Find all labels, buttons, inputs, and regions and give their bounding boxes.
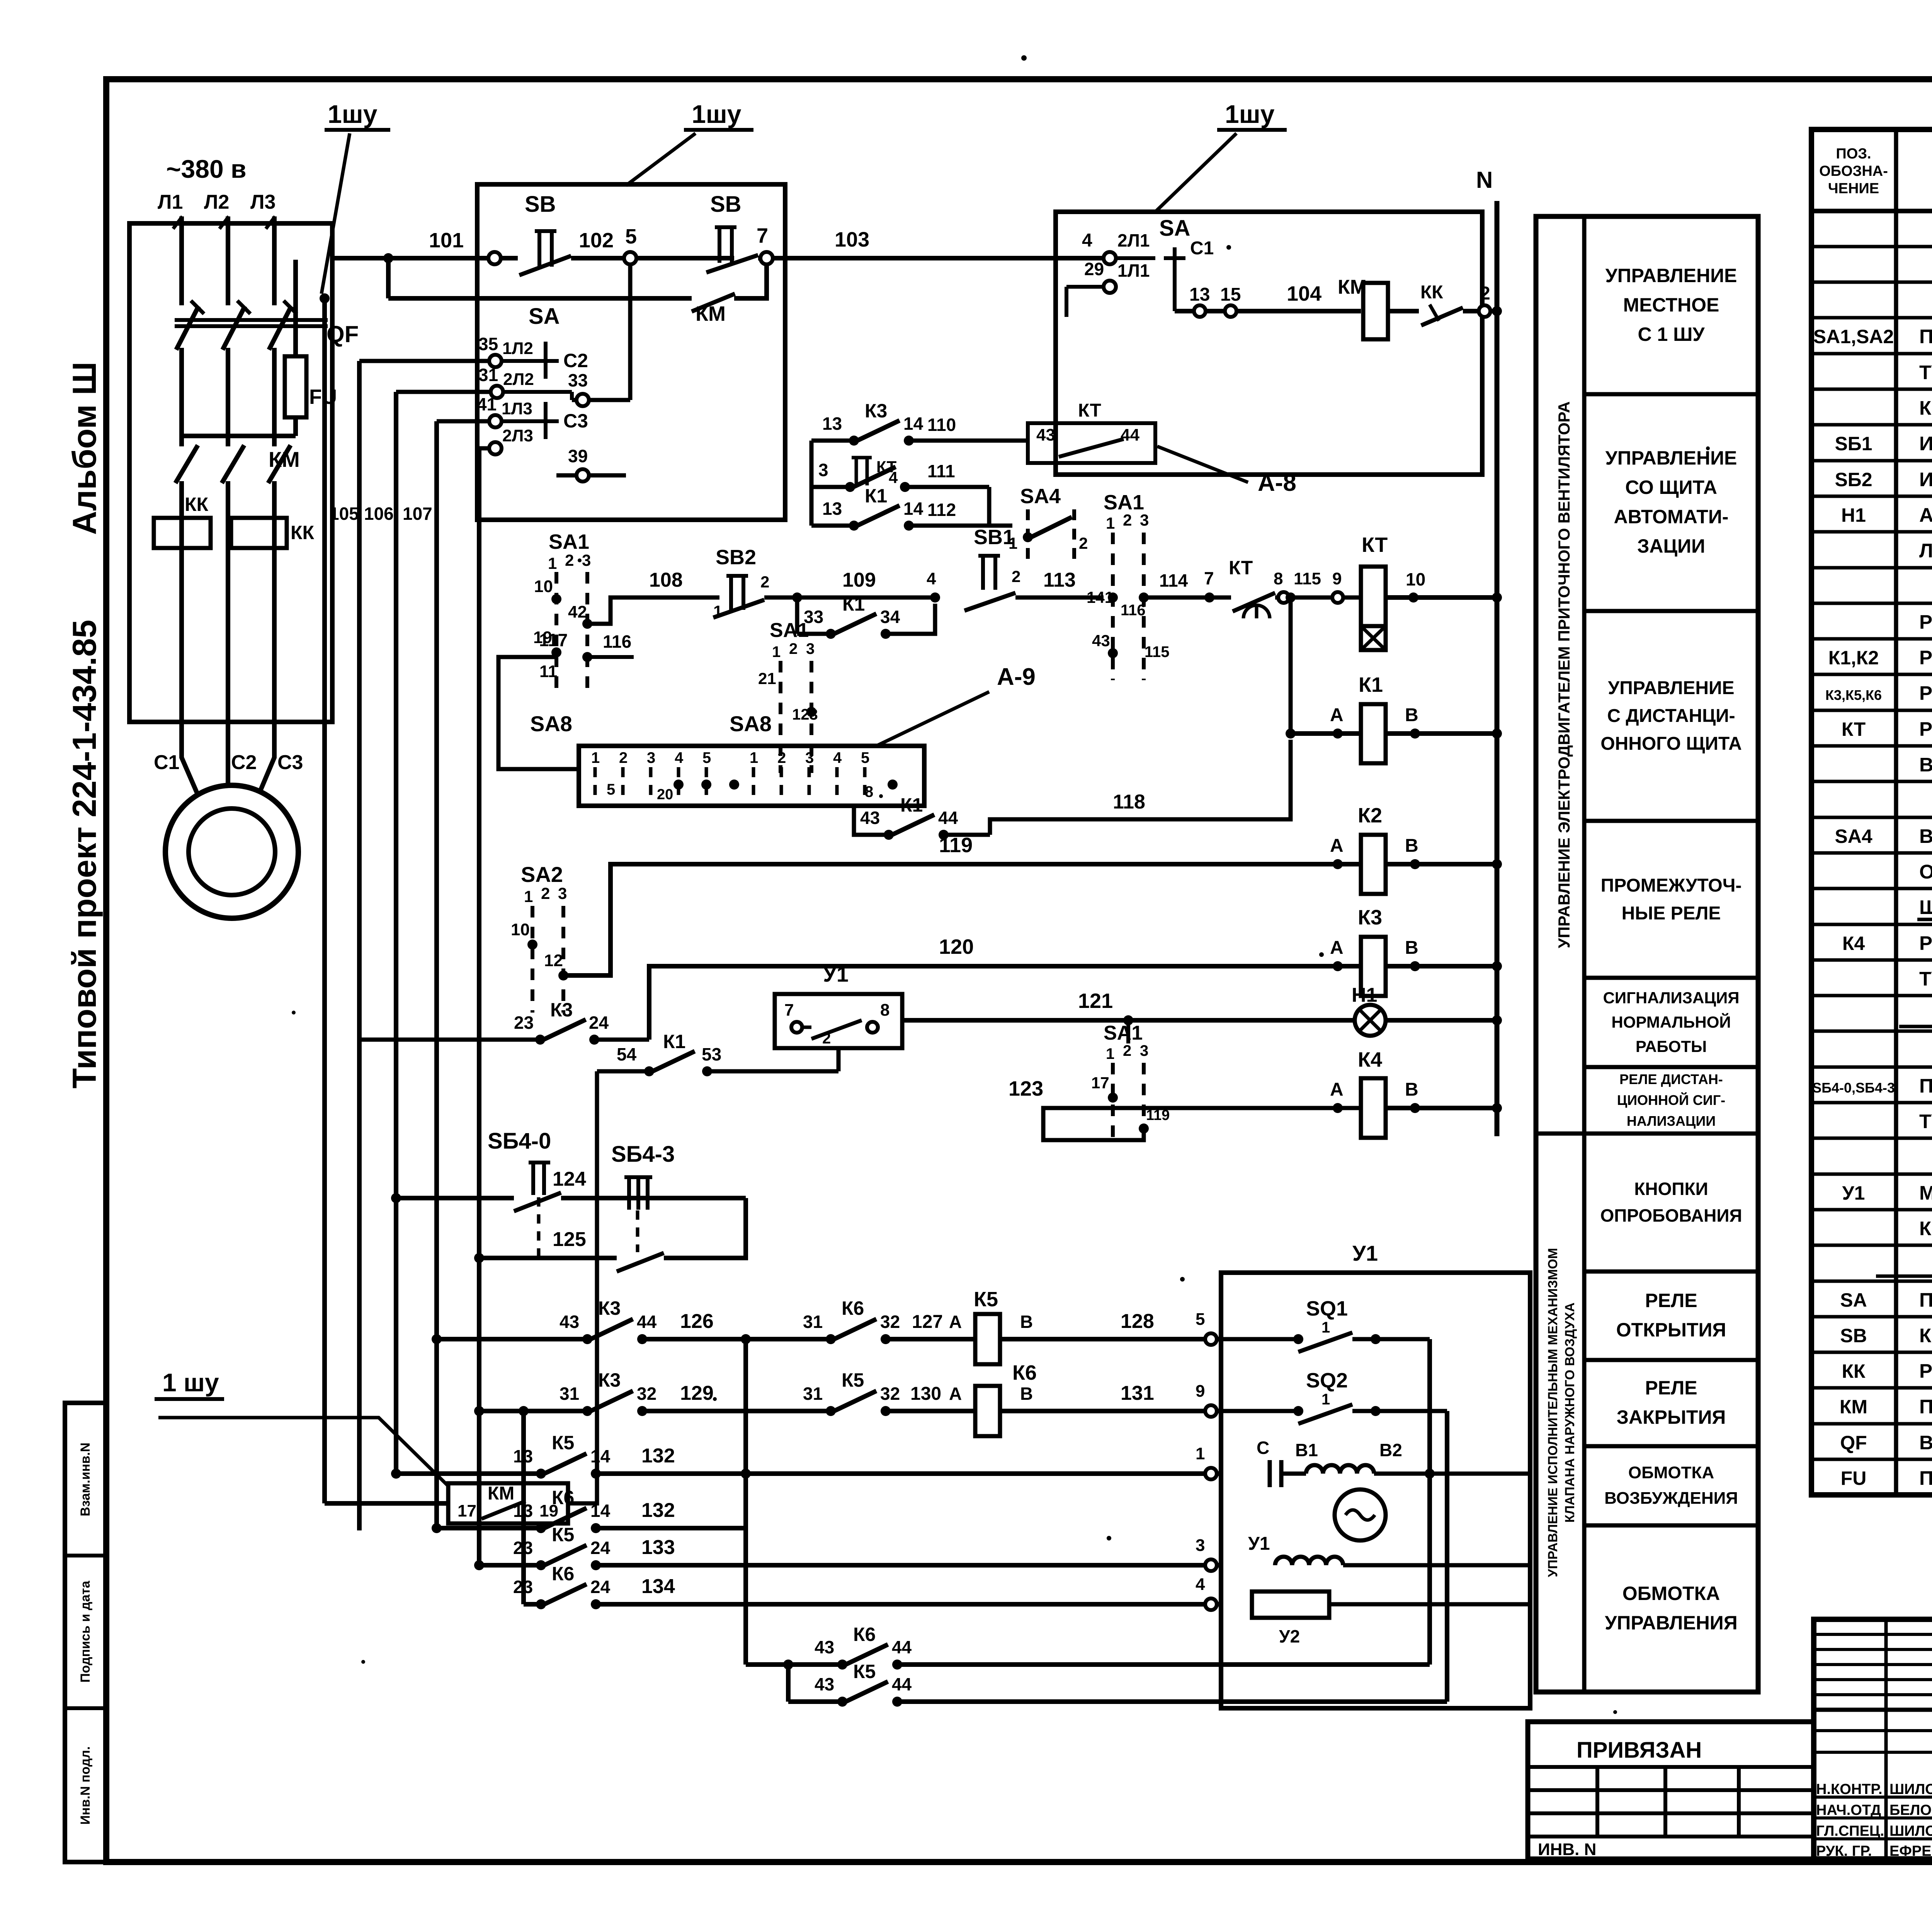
svg-text:К5: К5 xyxy=(974,1288,998,1311)
svg-text:108: 108 xyxy=(649,569,683,591)
svg-text:112: 112 xyxy=(927,500,956,520)
svg-text:2: 2 xyxy=(619,749,628,766)
svg-text:SA1: SA1 xyxy=(549,530,589,553)
interlock row 43 K5 44 xyxy=(783,1411,1447,1707)
part row QF xyxy=(1840,1431,1932,1454)
svg-text:ЩИТ ДИСТАНЦИОННОГО УПРАВЛЕНИЯ: ЩИТ ДИСТАНЦИОННОГО УПРАВЛЕНИЯ (ЦДУ) xyxy=(1919,896,1932,918)
svg-text:116: 116 xyxy=(1121,602,1146,619)
svg-text:3: 3 xyxy=(647,749,655,766)
svg-text:АРМАТУРА СИГНАЛЬНОЙ ЛАМПЫ ЛС-2: АРМАТУРА СИГНАЛЬНОЙ ЛАМПЫ ЛС-220 xyxy=(1919,504,1932,526)
svg-text:У2: У2 xyxy=(1279,1626,1300,1646)
svg-text:К1,К2: К1,К2 xyxy=(1828,647,1879,669)
svg-text:7: 7 xyxy=(784,1001,794,1020)
actuator box U1 xyxy=(1221,1241,1530,1708)
svg-text:106: 106 xyxy=(364,504,394,524)
svg-text:5: 5 xyxy=(607,781,615,798)
svg-text:~380 в: ~380 в xyxy=(166,155,247,183)
svg-text:К6: К6 xyxy=(552,1563,574,1585)
svg-text:КК: КК xyxy=(291,522,315,543)
svg-text:ЕФРЕМОВА: ЕФРЕМОВА xyxy=(1889,1843,1932,1859)
svg-text:123: 123 xyxy=(1009,1077,1043,1100)
svg-text:С2: С2 xyxy=(231,751,257,774)
contact row 23 K3 24 xyxy=(359,999,649,1045)
title block main xyxy=(1814,1619,1932,1859)
svg-text:КК: КК xyxy=(185,494,209,515)
motor M xyxy=(165,785,298,918)
part row ТУ 16-523.331-78 xyxy=(1919,968,1932,990)
svg-text:ЗАЦИИ: ЗАЦИИ xyxy=(1637,535,1705,557)
svg-text:РЕЛЕ: РЕЛЕ xyxy=(1645,1290,1697,1311)
svg-text:К3: К3 xyxy=(1358,906,1382,929)
svg-text:КНОПКИ: КНОПКИ xyxy=(1634,1179,1708,1199)
wire 108 xyxy=(587,569,719,624)
svg-text:3: 3 xyxy=(1140,1042,1148,1059)
control cabinet box with SB buttons xyxy=(477,184,785,520)
zone cell: local control xyxy=(1605,265,1737,345)
svg-text:2: 2 xyxy=(822,1030,831,1047)
thermal relay KK heaters xyxy=(154,494,315,548)
svg-text:129: 129 xyxy=(680,1382,714,1404)
svg-text:СИГНАЛИЗАЦИЯ: СИГНАЛИЗАЦИЯ xyxy=(1603,989,1740,1007)
svg-text:Типовой проект 224-1-434.85: Типовой проект 224-1-434.85 xyxy=(66,620,103,1088)
part row SБ2 xyxy=(1835,468,1932,491)
svg-text:10: 10 xyxy=(1406,569,1425,589)
svg-text:SA2: SA2 xyxy=(521,862,563,887)
svg-text:А: А xyxy=(1330,1079,1344,1100)
svg-text:44: 44 xyxy=(938,808,958,828)
svg-text:РУК. ГР.: РУК. ГР. xyxy=(1816,1843,1872,1859)
svg-text:102: 102 xyxy=(579,229,614,252)
svg-text:43: 43 xyxy=(1092,631,1110,650)
label 1 shu (SB box) xyxy=(626,100,753,186)
interlock row 43 K6 44 xyxy=(746,1339,1430,1670)
svg-text:1: 1 xyxy=(750,749,758,766)
svg-text:РЕЛЕ ВРЕМЕНИ ПРОГРАММНОЕ ~220в: РЕЛЕ ВРЕМЕНИ ПРОГРАММНОЕ ~220в, 50гц xyxy=(1919,718,1932,740)
svg-text:17: 17 xyxy=(1091,1074,1109,1092)
part row ШКАФ УПРАВЛЕНИЯ (1 ШУ) xyxy=(1876,1253,1932,1276)
svg-text:С ДИСТАНЦИ-: С ДИСТАНЦИ- xyxy=(1607,706,1735,726)
svg-text:2Л1: 2Л1 xyxy=(1117,230,1150,250)
svg-text:43: 43 xyxy=(815,1637,834,1657)
svg-text:КТ: КТ xyxy=(1229,557,1253,579)
vertical buses 105 106 107 xyxy=(320,293,479,1565)
contact row 43 K1 44 under SA8 xyxy=(854,794,990,840)
svg-text:К5: К5 xyxy=(552,1524,574,1546)
contact row 13 K6 14 wire 132b xyxy=(432,1469,751,1533)
svg-text:130: 130 xyxy=(910,1384,941,1404)
svg-text:4: 4 xyxy=(833,749,842,766)
svg-text:1: 1 xyxy=(591,749,600,766)
seal-in contact K1 row 33-34 xyxy=(792,592,935,639)
svg-text:РЕЛЕ РПУ-2-062203~220в 50 гц: РЕЛЕ РПУ-2-062203~220в 50 гц 2з+2р xyxy=(1919,932,1932,954)
sync generator symbol xyxy=(1335,1489,1386,1540)
svg-text:7: 7 xyxy=(757,224,768,247)
svg-text:КМ: КМ xyxy=(488,1483,514,1504)
svg-text:QF: QF xyxy=(327,321,359,347)
svg-text:132: 132 xyxy=(641,1499,675,1522)
svg-text:131: 131 xyxy=(1121,1382,1154,1404)
svg-text:Н1: Н1 xyxy=(1352,984,1377,1006)
selector SA2 column xyxy=(511,862,568,1013)
svg-text:К3,К5,К6: К3,К5,К6 xyxy=(1825,687,1882,703)
svg-text:ТУ 16526. 128-75: ТУ 16526. 128-75 xyxy=(1919,361,1932,383)
svg-text:У1: У1 xyxy=(823,962,849,986)
part row SA1,SA2 xyxy=(1813,325,1932,347)
parts table header xyxy=(1819,146,1932,197)
svg-text:Н1: Н1 xyxy=(1841,504,1866,526)
part row КТ xyxy=(1842,718,1932,740)
svg-text:8: 8 xyxy=(880,1001,889,1020)
selector SA1 column d xyxy=(1091,1020,1170,1140)
part row ТУ 16526. 128-75 xyxy=(1919,361,1932,384)
svg-text:А-8: А-8 xyxy=(1258,470,1296,496)
svg-text:29: 29 xyxy=(1084,259,1104,279)
svg-text:ЗАКРЫТИЯ: ЗАКРЫТИЯ xyxy=(1617,1406,1726,1428)
part row ЛИНЗА ЗЕЛЕНАЯ ТУ16.535.4 xyxy=(1919,540,1932,562)
svg-text:3: 3 xyxy=(582,551,591,569)
svg-text:SA8: SA8 xyxy=(730,711,772,736)
svg-text:БЕЛОВ: БЕЛОВ xyxy=(1889,1802,1932,1818)
svg-text:4: 4 xyxy=(889,468,898,487)
svg-text:105: 105 xyxy=(329,504,359,524)
svg-text:SQ1: SQ1 xyxy=(1306,1297,1348,1320)
svg-text:1Л2: 1Л2 xyxy=(502,339,533,358)
contact row 31 K3 32 wire 129 xyxy=(474,1369,831,1416)
wire to KT rung xyxy=(1144,568,1231,603)
svg-text:SБ2: SБ2 xyxy=(1835,469,1872,490)
svg-text:Альбом Ш: Альбом Ш xyxy=(66,362,103,535)
svg-text:14: 14 xyxy=(903,499,923,519)
push button SB2 xyxy=(713,546,769,620)
svg-text:SB2: SB2 xyxy=(716,546,756,569)
svg-text:КОНТАКТНЫЙ МЭО-4/100 ГОСТ 71: КОНТАКТНЫЙ МЭО-4/100 ГОСТ 7192-74 xyxy=(1919,1217,1932,1239)
svg-text:4: 4 xyxy=(1196,1575,1205,1594)
title block left signature grid xyxy=(1814,1619,1932,1859)
svg-text:SA1: SA1 xyxy=(1104,491,1144,514)
control winding U1 xyxy=(1248,1534,1530,1565)
svg-text:К4: К4 xyxy=(1358,1048,1382,1071)
svg-text:2: 2 xyxy=(541,884,550,902)
svg-text:12: 12 xyxy=(544,951,563,970)
svg-text:КТ: КТ xyxy=(1078,400,1101,421)
zone cell: normal operation signal xyxy=(1603,989,1740,1055)
svg-text:53: 53 xyxy=(702,1044,721,1064)
svg-text:14: 14 xyxy=(903,414,923,434)
svg-text:2: 2 xyxy=(1123,511,1132,529)
svg-text:ВС-10-33 УЧ ТУ16.523.476-74: ВС-10-33 УЧ ТУ16.523.476-74 xyxy=(1919,754,1932,776)
limit switch SQ1 xyxy=(1221,1297,1430,1352)
svg-text:Л2: Л2 xyxy=(204,191,229,213)
svg-text:К1: К1 xyxy=(900,794,923,816)
svg-text:107: 107 xyxy=(403,504,432,524)
svg-text:43: 43 xyxy=(815,1674,834,1694)
svg-text:SB: SB xyxy=(1840,1325,1867,1346)
margin label Album III xyxy=(66,362,103,535)
local control box SA xyxy=(1056,212,1482,475)
svg-text:44: 44 xyxy=(892,1637,912,1657)
part row КМ xyxy=(1840,1395,1932,1418)
svg-text:21: 21 xyxy=(758,669,776,688)
svg-text:ШИЛОВ: ШИЛОВ xyxy=(1889,1781,1932,1797)
svg-text:SБ4-0,SБ4-3: SБ4-0,SБ4-3 xyxy=(1812,1080,1895,1096)
svg-text:1: 1 xyxy=(524,887,533,906)
svg-text:ИНВ. N: ИНВ. N xyxy=(1538,1840,1596,1859)
svg-text:5: 5 xyxy=(861,749,869,766)
svg-text:К3: К3 xyxy=(550,999,573,1021)
svg-text:В1: В1 xyxy=(1295,1440,1318,1460)
svg-text:Взам.инв.N: Взам.инв.N xyxy=(78,1443,93,1517)
wire 117 xyxy=(498,630,579,769)
svg-text:К6: К6 xyxy=(853,1624,876,1645)
svg-text:SA8: SA8 xyxy=(530,711,572,736)
svg-text:SA1: SA1 xyxy=(1104,1022,1143,1044)
svg-text:115: 115 xyxy=(1145,643,1170,660)
svg-text:20: 20 xyxy=(657,786,673,803)
parts list table grid xyxy=(1811,129,1932,1495)
zone strip label: air valve actuator control xyxy=(1546,1248,1577,1577)
svg-text:ОННОГО ЩИТА: ОННОГО ЩИТА xyxy=(1600,734,1742,754)
scan speckles xyxy=(292,55,1932,1714)
svg-text:УПРАВЛЕНИЕ: УПРАВЛЕНИЕ xyxy=(1605,265,1737,286)
svg-text:Инв.N подл.: Инв.N подл. xyxy=(78,1746,93,1825)
svg-text:133: 133 xyxy=(641,1536,675,1559)
svg-text:А: А xyxy=(1330,836,1344,856)
svg-text:В: В xyxy=(1405,938,1418,958)
svg-text:SA4: SA4 xyxy=(1020,485,1061,508)
svg-text:3: 3 xyxy=(1140,511,1149,529)
svg-text:ОСТ 16.0.526. 001-72: ОСТ 16.0.526. 001-72 xyxy=(1919,861,1932,883)
svg-text:SA1,SA2: SA1,SA2 xyxy=(1813,326,1894,347)
svg-text:N: N xyxy=(1476,167,1493,193)
svg-text:1: 1 xyxy=(1106,514,1115,532)
contact K6 31-32 and coil K5 wire 127 128 xyxy=(803,1288,1221,1364)
limit switch SQ2 xyxy=(1221,1369,1447,1424)
part row ЩИТ ДИСТАНЦИОННОГО УПРАВ xyxy=(1917,896,1932,919)
svg-text:3: 3 xyxy=(805,749,814,766)
svg-text:32: 32 xyxy=(880,1384,900,1404)
svg-text:ОБМОТКА: ОБМОТКА xyxy=(1622,1583,1720,1604)
selector SA1 column a xyxy=(533,530,634,692)
svg-text:ПРИВЯЗАН: ПРИВЯЗАН xyxy=(1577,1738,1702,1763)
svg-text:SB1: SB1 xyxy=(974,526,1014,549)
part row SB xyxy=(1840,1324,1932,1347)
zone cell: control winding xyxy=(1605,1583,1737,1634)
time relay KT delayed contact xyxy=(1229,557,1361,618)
thermal contact KK break xyxy=(1388,282,1497,325)
svg-text:НАЧ.ОТД: НАЧ.ОТД xyxy=(1816,1802,1881,1818)
svg-text:141: 141 xyxy=(1087,588,1114,606)
part row К3,К5,К6 xyxy=(1825,682,1932,705)
fuse FU and wire 101 tap xyxy=(182,260,337,436)
svg-text:К3: К3 xyxy=(598,1297,621,1319)
contact row 23 K5 24 wire 133 xyxy=(474,1524,1221,1571)
svg-text:С: С xyxy=(1257,1438,1269,1458)
svg-text:41: 41 xyxy=(477,394,497,414)
svg-text:23: 23 xyxy=(514,1013,534,1033)
svg-text:ВЫКЛЮЧАТЕЛЬ ПАКЕТНЫЙ ПВ-1-10 И: ВЫКЛЮЧАТЕЛЬ ПАКЕТНЫЙ ПВ-1-10 ИСП.3 xyxy=(1919,825,1932,847)
part row SБ4-0,SБ4-3 xyxy=(1812,1074,1932,1097)
svg-text:127: 127 xyxy=(912,1312,943,1332)
svg-text:39: 39 xyxy=(568,446,588,466)
svg-text:8: 8 xyxy=(865,783,873,800)
contact row 110 with K3 and KT box xyxy=(811,400,1155,463)
contact K5 31-32 and coil K6 wire 130 131 xyxy=(803,1361,1221,1436)
svg-text:44: 44 xyxy=(637,1312,657,1332)
part row ОСТ 16.0.526. 001-72 xyxy=(1919,861,1932,883)
svg-text:134: 134 xyxy=(641,1575,675,1598)
svg-text:132: 132 xyxy=(641,1445,675,1467)
wire 109 xyxy=(764,569,940,603)
svg-text:С1: С1 xyxy=(154,751,179,774)
svg-text:ПРЕДОХРАНИТЕЛЬ ПРГ: ПРЕДОХРАНИТЕЛЬ ПРГ xyxy=(1919,1467,1932,1489)
part row К1,К2 xyxy=(1828,647,1932,669)
svg-text:Подпись и дата: Подпись и дата xyxy=(78,1580,93,1683)
svg-text:1Л1: 1Л1 xyxy=(1117,260,1150,281)
svg-text:КТ: КТ xyxy=(1842,718,1866,740)
svg-text:33: 33 xyxy=(568,370,588,390)
part row ТУ 16.526 216-71 xyxy=(1919,1110,1932,1133)
phase labels L1 L2 L3 xyxy=(158,191,276,213)
svg-text:109: 109 xyxy=(842,569,876,591)
zone cell: remote control xyxy=(1600,678,1742,754)
svg-text:К1: К1 xyxy=(1359,673,1383,696)
push button SB1 xyxy=(964,526,1104,611)
svg-text:РЕЛЕ ДИСТАН-: РЕЛЕ ДИСТАН- xyxy=(1619,1071,1723,1087)
label 1 shu with leader xyxy=(321,100,390,294)
svg-text:42: 42 xyxy=(568,603,587,621)
svg-text:1шу: 1шу xyxy=(1225,100,1275,128)
part row КК xyxy=(1842,1360,1932,1382)
svg-text:ПОЗ.: ПОЗ. xyxy=(1836,146,1871,162)
time relay coil KT xyxy=(1361,533,1497,650)
svg-text:32: 32 xyxy=(637,1384,656,1404)
svg-text:1шу: 1шу xyxy=(692,100,742,128)
label 1 shu bottom with leader xyxy=(155,1368,448,1486)
svg-text:119: 119 xyxy=(939,834,973,857)
svg-text:Л3: Л3 xyxy=(250,191,276,213)
wire 103 xyxy=(785,228,1104,258)
svg-text:QF: QF xyxy=(1840,1432,1867,1454)
svg-text:ОБОЗНА-: ОБОЗНА- xyxy=(1819,163,1888,179)
svg-text:КНОПКА УПРАВЛЕНИЯ КСГ1-12: КНОПКА УПРАВЛЕНИЯ КСГ1-12 xyxy=(1919,1324,1932,1346)
svg-text:С1: С1 xyxy=(1190,238,1214,259)
svg-text:А: А xyxy=(949,1384,962,1404)
svg-text:ПОСТ УПРАВЛЕНИЯ КНОПОЧНЫЙ ПКЕ-: ПОСТ УПРАВЛЕНИЯ КНОПОЧНЫЙ ПКЕ-212-2 УЗ xyxy=(1919,1074,1932,1097)
svg-text:ПЕРЕКЛЮЧАТЕЛЬ ПАКЕТНЫЙ ППЗ-10/: ПЕРЕКЛЮЧАТЕЛЬ ПАКЕТНЫЙ ППЗ-10/112 xyxy=(1919,1289,1932,1311)
function zones table xyxy=(1536,216,1758,1692)
svg-text:АВТОМАТИ-: АВТОМАТИ- xyxy=(1614,506,1729,528)
contact row 112 K1 and SA4 xyxy=(811,441,1088,560)
svg-text:24: 24 xyxy=(590,1538,611,1558)
packet switch SA8 xyxy=(530,711,924,806)
svg-text:ПЕРЕКЛЮЧАТЕЛЬ ПМОФ 45112222/П-: ПЕРЕКЛЮЧАТЕЛЬ ПМОФ 45112222/П-Д1 xyxy=(1919,325,1932,347)
svg-text:УПРАВЛЕНИЕ ЭЛЕКТРОДВИГАТЕЛЕМ: УПРАВЛЕНИЕ ЭЛЕКТРОДВИГАТЕЛЕМ ПРИТОЧНОГО … xyxy=(1555,401,1573,948)
leader A-9 xyxy=(876,664,1036,746)
svg-text:ЦИОННОЙ СИГ-: ЦИОННОЙ СИГ- xyxy=(1617,1092,1725,1108)
svg-text:А-9: А-9 xyxy=(997,664,1036,690)
part row FU xyxy=(1841,1467,1932,1489)
contactor KM main contacts xyxy=(175,445,300,483)
svg-text:Н.КОНТР.: Н.КОНТР. xyxy=(1816,1781,1883,1797)
svg-text:43: 43 xyxy=(1036,426,1055,444)
svg-text:14: 14 xyxy=(590,1501,611,1521)
svg-text:10: 10 xyxy=(534,577,553,596)
svg-text:3: 3 xyxy=(806,640,815,657)
svg-text:113: 113 xyxy=(1043,569,1076,591)
svg-text:FU: FU xyxy=(1841,1467,1867,1489)
push button SB (second) xyxy=(706,192,785,272)
svg-text:К5: К5 xyxy=(853,1661,876,1682)
svg-text:КНОПКА КЕ011УЗ ТУ16 526.407-76: КНОПКА КЕ011УЗ ТУ16 526.407-76 xyxy=(1919,397,1932,419)
svg-text:1 шу: 1 шу xyxy=(162,1368,219,1397)
part row АППАРАТУРА ПО МЕСТУ xyxy=(1899,1003,1932,1026)
svg-text:НАЛИЗАЦИИ: НАЛИЗАЦИИ xyxy=(1627,1113,1716,1129)
svg-text:SQ2: SQ2 xyxy=(1306,1369,1348,1392)
svg-text:121: 121 xyxy=(1078,989,1113,1013)
svg-text:1: 1 xyxy=(548,554,557,572)
zone cell: closing relay xyxy=(1617,1377,1726,1428)
svg-text:15: 15 xyxy=(1220,284,1241,305)
resistor U2 xyxy=(1252,1591,1530,1646)
part row SБ1 xyxy=(1835,432,1932,455)
svg-text:ЛИНЗА ЗЕЛЕНАЯ ТУ16.535.426-70: ЛИНЗА ЗЕЛЕНАЯ ТУ16.535.426-70 xyxy=(1919,540,1932,562)
svg-text:SБ1: SБ1 xyxy=(1835,433,1872,454)
svg-text:5: 5 xyxy=(625,225,637,248)
wire 104 to coil KM xyxy=(1175,282,1361,317)
svg-text:КК: КК xyxy=(1842,1360,1866,1382)
margin stamp boxes bottom-left xyxy=(65,1403,106,1862)
svg-text:КМ: КМ xyxy=(1338,276,1367,298)
svg-text:10: 10 xyxy=(511,920,530,939)
svg-text:128: 128 xyxy=(1121,1310,1154,1333)
svg-text:24: 24 xyxy=(590,1577,611,1597)
svg-text:32: 32 xyxy=(880,1312,900,1332)
svg-text:С3: С3 xyxy=(563,410,588,432)
svg-text:УПРАВЛЕНИЕ ИСПОЛНИТЕЛЬНЫМ МЕХА: УПРАВЛЕНИЕ ИСПОЛНИТЕЛЬНЫМ МЕХАНИЗМОМ xyxy=(1546,1248,1560,1577)
svg-text:В: В xyxy=(1405,836,1418,856)
svg-text:А: А xyxy=(949,1312,962,1332)
svg-text:К3: К3 xyxy=(865,400,887,422)
svg-text:ТУ 16.526 216-71: ТУ 16.526 216-71 xyxy=(1919,1110,1932,1132)
KM auxiliary bypass contact xyxy=(383,253,767,325)
neutral bus N xyxy=(1476,167,1502,1136)
zone cell: panel control xyxy=(1605,447,1737,557)
svg-text:В: В xyxy=(1020,1384,1033,1404)
part row У1 xyxy=(1842,1181,1932,1204)
wire 101 xyxy=(332,229,518,264)
zone cell: test buttons xyxy=(1600,1179,1742,1226)
excitation winding: capacitor C and coil B1-B2 xyxy=(1257,1438,1530,1487)
part row КНОПКА КЕ011УЗ ТУ16 526. xyxy=(1919,397,1932,419)
phase wires xyxy=(182,216,274,722)
limit switch box U1 with SQ contact xyxy=(775,962,902,1071)
svg-text:ОТКРЫТИЯ: ОТКРЫТИЯ xyxy=(1616,1319,1726,1341)
svg-text:КМ: КМ xyxy=(1840,1396,1867,1418)
svg-text:1: 1 xyxy=(1196,1444,1205,1463)
svg-text:УПРАВЛЕНИЕ: УПРАВЛЕНИЕ xyxy=(1605,447,1737,469)
svg-text:МЕСТНОЕ: МЕСТНОЕ xyxy=(1623,294,1719,316)
svg-text:120: 120 xyxy=(939,935,974,958)
svg-text:РЕЛЕ: РЕЛЕ xyxy=(1645,1377,1697,1399)
svg-text:ВОЗБУЖДЕНИЯ: ВОЗБУЖДЕНИЯ xyxy=(1604,1489,1738,1508)
leader A-8 xyxy=(1157,446,1296,496)
svg-text:1шу: 1шу xyxy=(328,100,378,128)
svg-text:2: 2 xyxy=(1123,1042,1131,1059)
svg-text:2Л3: 2Л3 xyxy=(502,426,533,445)
cabinet 1SHU power box xyxy=(129,223,332,722)
svg-text:34: 34 xyxy=(880,607,900,627)
contact row 43 K3 44 wire 126 xyxy=(432,1297,831,1344)
